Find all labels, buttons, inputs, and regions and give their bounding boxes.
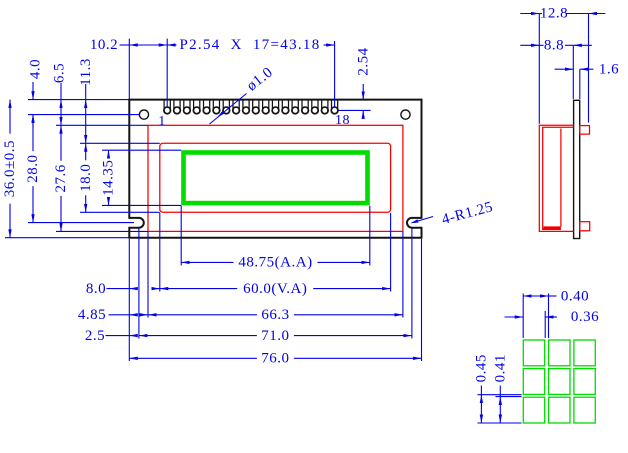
pin 4: [194, 100, 200, 114]
svg-text:0.36: 0.36: [571, 309, 599, 325]
pin 16: [312, 100, 318, 114]
pin 6: [213, 100, 219, 114]
svg-text:28.0: 28.0: [25, 154, 41, 182]
dimension 2.54 pin row to top edge: [362, 84, 364, 100]
ext line slot center right bottom: [411, 229, 413, 339]
ext line VA right bottom: [390, 213, 392, 292]
mounting hole left: [139, 110, 148, 119]
svg-text:6.5: 6.5: [52, 63, 68, 83]
pixel cell row 3 col 2: [549, 397, 570, 423]
ext line bezel left bottom: [147, 232, 149, 318]
pin 1: [164, 100, 170, 114]
svg-text:0.45: 0.45: [474, 354, 490, 382]
pixel cell row 1 col 1: [523, 340, 544, 366]
ext line side tab right: [588, 14, 590, 123]
svg-text:11.3: 11.3: [78, 58, 94, 86]
pin 12: [272, 100, 278, 114]
ext line hole center left: [28, 114, 140, 116]
ext line pixel col1 right: [544, 311, 546, 338]
pin 15: [302, 100, 308, 114]
svg-text:36.0±0.5: 36.0±0.5: [2, 140, 18, 197]
ext line body right bottom: [421, 239, 423, 361]
pin 17: [322, 100, 328, 114]
ext line pixel row3 bottom: [478, 422, 522, 424]
svg-text:8.8: 8.8: [544, 38, 564, 54]
pin 3: [184, 100, 190, 114]
svg-text:4.85: 4.85: [78, 307, 106, 323]
svg-text:1.6: 1.6: [599, 61, 619, 77]
extension line pin18 center: [334, 41, 336, 107]
side view bezel tab bottom: [580, 222, 590, 231]
ext line body left bottom: [128, 239, 130, 361]
viewing area V.A. red rounded rect: [160, 143, 391, 212]
pin 8: [233, 100, 239, 114]
ext line slot center left bottom: [138, 229, 140, 339]
ext line AA right bottom: [369, 206, 371, 266]
svg-text:10.2: 10.2: [90, 37, 118, 53]
svg-text:76.0: 76.0: [261, 351, 289, 367]
ext line AA top left: [102, 149, 181, 151]
svg-text:27.6: 27.6: [53, 164, 69, 192]
dimension 1.6 PCB thickness: [555, 68, 574, 70]
dimension 0.36 pixel width: [505, 316, 524, 318]
dimension 76.0 overall width: [129, 357, 257, 359]
svg-text:48.75(A.A): 48.75(A.A): [238, 255, 312, 271]
side view glass bottom thick edge: [544, 226, 561, 229]
ext line pixel row3 top: [496, 396, 522, 398]
side view bezel inner lip: [543, 127, 574, 229]
dimension 48.75 AA width: [181, 261, 233, 263]
pin 5: [204, 100, 210, 114]
pin header 18 pins: [164, 100, 338, 114]
dimension 66.3 bezel width: [148, 314, 257, 316]
LCD module front view PCB outline with corner slots: [129, 100, 421, 238]
svg-text:8.0: 8.0: [86, 281, 106, 297]
pixel cell row 2 col 3: [574, 369, 595, 395]
ext line side bezel left: [538, 14, 540, 124]
ext line pixel row2 bottom: [478, 394, 522, 396]
svg-text:14.35: 14.35: [101, 160, 117, 196]
dimension 18.0 VA height: [85, 143, 87, 160]
pin 7: [223, 100, 229, 114]
ext line VA top left: [80, 142, 160, 144]
ext line side PCB left: [572, 45, 574, 99]
dimension 36.0 +-0.5 overall height: [9, 100, 11, 134]
side view bezel outer profile red: [539, 125, 573, 231]
ext line VA left bottom: [159, 213, 161, 292]
ext line body bottom left: [5, 237, 129, 239]
pin 11: [263, 100, 269, 114]
ext line slot center left: [28, 222, 134, 224]
side view bezel tab top: [580, 126, 590, 135]
dimension P2.54 X 17=43.18 pin row: [167, 44, 176, 46]
dimension 0.41 pixel height: [499, 386, 501, 397]
dimension 12.8 side overall: [520, 13, 539, 15]
dimension 0.40 pixel pitch: [523, 295, 548, 297]
ext line pixel col2 left: [548, 294, 550, 339]
extension line body left top: [128, 39, 130, 99]
svg-text:P2.54 X 17=43.18: P2.54 X 17=43.18: [179, 37, 320, 53]
svg-text:71.0: 71.0: [261, 328, 289, 344]
pixel cell row 3 col 3: [574, 397, 595, 423]
pin 18: [332, 100, 338, 114]
pixel cell row 1 col 3: [574, 340, 595, 366]
ext line bezel bottom left: [56, 230, 148, 232]
svg-text:0.41: 0.41: [493, 354, 509, 382]
pin 14: [292, 100, 298, 114]
extension line pin1 center: [166, 39, 168, 107]
ext line AA bottom left: [102, 204, 181, 206]
extension line pin hole center row right: [339, 109, 371, 111]
dimension 0.45 pixel pitch vertical: [480, 386, 482, 395]
dimension 14.35 AA height: [108, 150, 110, 157]
dimension 60.0 VA width: [160, 288, 237, 290]
pixel cell row 1 col 2: [549, 340, 570, 366]
svg-text:0.40: 0.40: [561, 288, 589, 304]
svg-text:1: 1: [158, 114, 166, 129]
side view PCB bar: [574, 100, 580, 238]
label diameter 1.0 with leader: [210, 94, 247, 125]
pixel cell row 2 col 2: [549, 369, 570, 395]
ext line side PCB right: [579, 69, 581, 99]
dimension 8.8 bezel to PCB: [520, 44, 539, 46]
ext line AA left bottom: [180, 206, 182, 266]
dimension 28.0 hole to slot: [32, 115, 34, 152]
ext line bezel right bottom: [402, 232, 404, 318]
active area A.A. thick green rect: [184, 153, 368, 204]
ext line body top left: [28, 99, 129, 101]
pin 2: [174, 100, 180, 114]
ext line VA bottom left: [80, 211, 160, 213]
dimension 27.6 bezel height: [60, 125, 62, 161]
pixel cell row 3 col 1: [523, 397, 544, 423]
svg-text:2.54: 2.54: [355, 47, 371, 75]
metal bezel outline red: [148, 125, 403, 231]
pin 9: [243, 100, 249, 114]
svg-text:18.0: 18.0: [78, 164, 94, 192]
pixel grid 3x3 green squares: [523, 340, 595, 423]
pin 13: [282, 100, 288, 114]
svg-text:66.3: 66.3: [261, 307, 289, 323]
ext line pixel col1 left: [522, 294, 524, 339]
label 4-R1.25 slot radius with leader: [413, 217, 434, 223]
pin 10: [253, 100, 259, 114]
pixel cell row 2 col 1: [523, 369, 544, 395]
ext line bezel top left: [56, 124, 148, 126]
svg-text:18: 18: [335, 113, 350, 128]
svg-text:4.0: 4.0: [28, 59, 44, 79]
side view LCD glass back edge: [560, 129, 562, 227]
svg-text:12.8: 12.8: [540, 6, 568, 22]
mounting hole right: [401, 110, 410, 119]
svg-text:60.0(V.A): 60.0(V.A): [243, 281, 307, 297]
dimension 71.0 slot centers: [139, 335, 257, 337]
svg-text:2.5: 2.5: [85, 328, 105, 344]
